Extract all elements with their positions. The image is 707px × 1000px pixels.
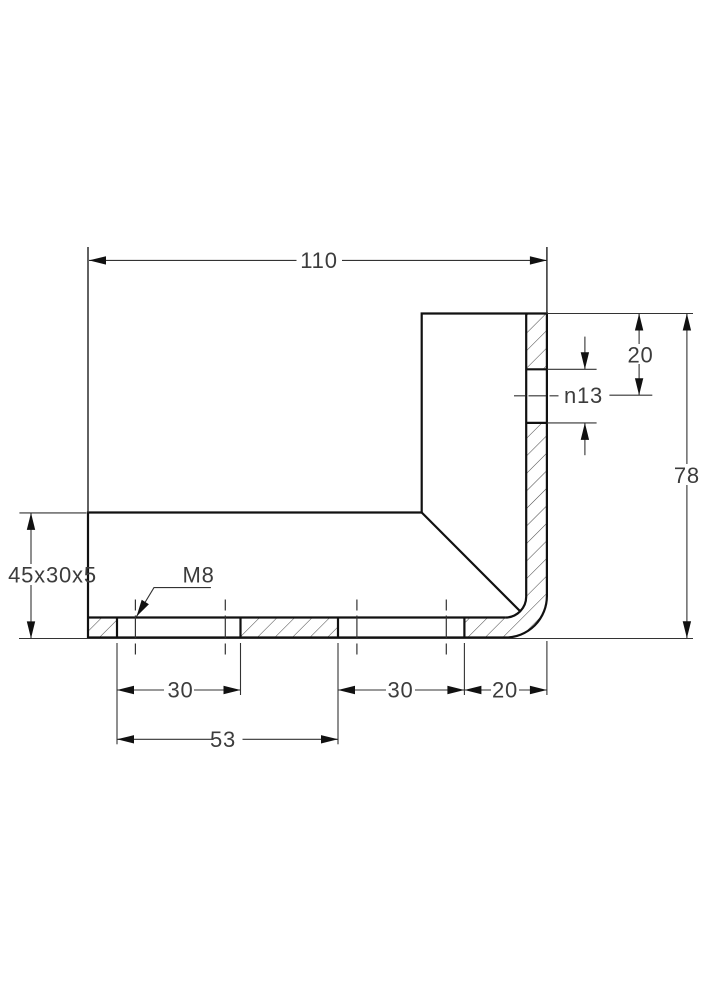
hole 13 arrow upper bbox=[581, 337, 589, 370]
svg-text:20: 20 bbox=[492, 678, 518, 703]
dimension 78 extension top bbox=[547, 313, 693, 315]
hatch wall lower section and bend bbox=[464, 423, 547, 638]
dimension 110 extension line right bbox=[546, 247, 548, 314]
label M8 with leader bbox=[137, 563, 215, 617]
slot hole centerline 1 bbox=[134, 600, 136, 655]
slot 2 left edge bbox=[337, 618, 339, 638]
svg-text:110: 110 bbox=[300, 248, 337, 273]
flange top line bbox=[88, 616, 505, 618]
dimension 78 bbox=[674, 314, 700, 639]
slot hole centerline 2 bbox=[224, 600, 226, 655]
svg-text:45x30x5: 45x30x5 bbox=[8, 562, 97, 587]
bend inner radius arc bbox=[505, 597, 526, 618]
part outer outline bbox=[88, 314, 547, 638]
svg-text:M8: M8 bbox=[183, 563, 215, 588]
hole n13 top edge bbox=[526, 368, 547, 370]
bottom extension line slot2 left bbox=[337, 643, 339, 744]
dimension 110 bbox=[89, 248, 547, 273]
slot hole centerline 4 bbox=[445, 600, 447, 655]
slot hole centerline 3 bbox=[356, 600, 358, 655]
svg-text:53: 53 bbox=[210, 727, 236, 752]
dimension 78 extension bottom bbox=[19, 638, 693, 640]
bottom extension line outer face bbox=[546, 641, 548, 695]
svg-text:n13: n13 bbox=[564, 383, 603, 408]
svg-text:30: 30 bbox=[387, 678, 413, 703]
dimension 53 bbox=[117, 727, 338, 752]
dimension 110 extension line left bbox=[87, 247, 89, 513]
bottom extension line slot1 right bbox=[240, 643, 242, 695]
dimension 45x30x5 bbox=[8, 513, 97, 639]
slot 1 right edge bbox=[239, 618, 241, 638]
dimension 30 bottom middle bbox=[338, 678, 464, 703]
hatch flange segment left bbox=[88, 618, 117, 638]
hatch wall upper section bbox=[526, 314, 547, 370]
hole n13 bottom edge bbox=[526, 422, 547, 424]
bottom extension line slot1 left bbox=[116, 643, 118, 744]
svg-text:30: 30 bbox=[167, 678, 193, 703]
hole centerline bbox=[514, 395, 559, 397]
dimension 20 top right bbox=[627, 314, 653, 396]
dimension 45x30x5 extension top bbox=[19, 512, 86, 514]
diagonal edge bbox=[422, 513, 521, 612]
hole 13 arrow lower bbox=[581, 423, 589, 455]
dimension n13 extension right of hole center bbox=[609, 394, 652, 396]
wall inner face line bbox=[525, 314, 527, 597]
dimension 30 bottom left bbox=[117, 678, 241, 703]
hole 13 lower edge extension bbox=[547, 422, 597, 424]
hatch flange segment middle bbox=[241, 618, 339, 638]
slot 2 right edge bbox=[463, 618, 465, 638]
svg-text:20: 20 bbox=[627, 343, 653, 368]
svg-text:78: 78 bbox=[674, 463, 700, 488]
bottom extension line slot2 right bbox=[463, 643, 465, 695]
dimension 20 bottom right bbox=[464, 678, 547, 703]
hole 13 upper edge extension bbox=[547, 368, 597, 370]
slot 1 left edge bbox=[116, 618, 118, 638]
